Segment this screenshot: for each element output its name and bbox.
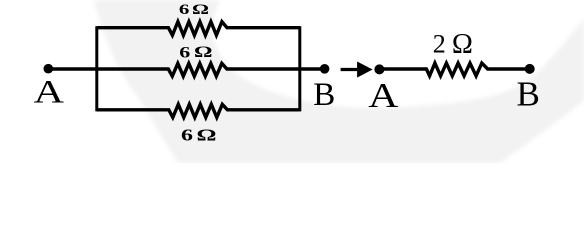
label 6Ω middle — [179, 44, 212, 61]
resistor R3 6Ω bottom branch — [97, 104, 300, 117]
svg-text:B: B — [517, 75, 540, 114]
svg-text:Ω: Ω — [452, 28, 473, 60]
label 6Ω bottom — [181, 126, 217, 145]
svg-text:A: A — [34, 74, 65, 110]
wire: right rail vertical — [298, 26, 301, 111]
resistor R1 6Ω top branch — [97, 22, 300, 36]
equivalence arrow — [341, 62, 373, 78]
svg-text:2: 2 — [433, 29, 446, 58]
wire: left rail vertical — [95, 26, 98, 111]
resistor R2 6Ω middle branch — [48, 63, 324, 76]
svg-text:Ω: Ω — [197, 126, 217, 145]
node B terminal dot (right circuit) — [525, 64, 535, 74]
svg-text:6: 6 — [179, 2, 190, 18]
svg-text:Ω: Ω — [192, 2, 209, 18]
label 6Ω top — [179, 2, 209, 18]
svg-text:Ω: Ω — [194, 44, 213, 61]
node A terminal dot (right circuit) — [374, 64, 384, 74]
label 2Ω — [433, 28, 473, 60]
node A terminal dot (left circuit) — [44, 64, 54, 74]
node B terminal dot (left circuit) — [320, 64, 330, 74]
resistor R4 2Ω equivalent — [379, 63, 530, 76]
svg-text:B: B — [313, 77, 335, 113]
svg-text:6: 6 — [181, 126, 193, 145]
svg-text:6: 6 — [179, 44, 190, 61]
svg-text:A: A — [368, 76, 399, 115]
